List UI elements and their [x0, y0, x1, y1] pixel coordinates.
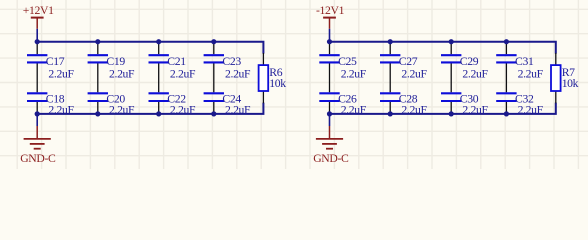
svg-text:10k: 10k — [562, 77, 579, 90]
svg-text:2.2uF: 2.2uF — [225, 67, 251, 80]
pin R7 top lead — [555, 53, 557, 65]
ground stem — [36, 126, 38, 139]
ground bar 3 — [34, 148, 41, 150]
C30 plate 1 — [441, 92, 461, 94]
junction on bottom bus col 2 — [95, 111, 100, 116]
svg-text:2.2uF: 2.2uF — [401, 103, 427, 116]
junction on bottom bus col 1 — [327, 111, 332, 116]
wire/pin C28 bottom lead — [389, 102, 391, 114]
junction on bottom bus col 4 — [211, 111, 216, 116]
junction on bottom bus col 4 — [504, 111, 509, 116]
C31 plate 2 — [496, 61, 516, 63]
capacitor C22 — [149, 92, 196, 116]
capacitor C31 — [496, 55, 543, 80]
C18 plate 1 — [27, 92, 47, 94]
C26 plate 1 — [319, 92, 339, 94]
wire/pin C18 bottom lead — [36, 102, 38, 114]
R6 body — [259, 65, 269, 91]
C18 plate 2 — [27, 100, 47, 102]
power port +12V1 — [23, 4, 54, 29]
-12V1 bar symbol — [323, 17, 336, 19]
C22 plate 1 — [149, 92, 169, 94]
svg-text:C29: C29 — [460, 55, 479, 68]
wire/pin C30 bottom lead — [450, 102, 452, 114]
capacitor C25 — [319, 55, 366, 80]
junction on top bus col 3 — [156, 39, 161, 44]
svg-text:2.2uF: 2.2uF — [462, 103, 488, 116]
capacitor C21 — [149, 55, 196, 80]
C19 plate 1 — [88, 54, 108, 56]
-12V1 stem — [329, 18, 331, 29]
svg-text:2.2uF: 2.2uF — [48, 67, 74, 80]
ground bar 1 — [316, 138, 343, 140]
capacitor C30 — [441, 92, 488, 116]
pin R6 bottom lead — [262, 91, 264, 103]
junction on bottom bus col 3 — [156, 111, 161, 116]
ground bar 3 — [326, 148, 333, 150]
wire/pin C29 top lead — [450, 42, 452, 55]
C21 plate 2 — [149, 61, 169, 63]
svg-text:2.2uF: 2.2uF — [518, 67, 544, 80]
wire/pin C21 top lead — [158, 42, 160, 55]
pin R6 top lead — [262, 53, 264, 65]
wire -12V1 top bus — [330, 42, 556, 54]
svg-text:2.2uF: 2.2uF — [170, 67, 196, 80]
svg-text:C31: C31 — [515, 55, 534, 68]
wire/pin C27 top lead — [389, 42, 391, 55]
junction on bottom bus col 2 — [388, 111, 393, 116]
wire/pin C26 bottom lead — [329, 102, 331, 114]
C22 plate 2 — [149, 100, 169, 102]
pin lead between C23 and C24 — [213, 63, 215, 92]
svg-text:C19: C19 — [106, 55, 125, 68]
capacitor C27 — [380, 55, 427, 80]
svg-text:2.2uF: 2.2uF — [341, 67, 367, 80]
ground GND-C symbol — [313, 126, 349, 165]
C21 plate 1 — [149, 54, 169, 56]
capacitor C17 — [27, 55, 74, 80]
capacitor C32 — [496, 92, 543, 116]
svg-text:2.2uF: 2.2uF — [341, 103, 367, 116]
C29 plate 1 — [441, 54, 461, 56]
+12V1 stem — [36, 18, 38, 29]
pin lead between C27 and C28 — [389, 63, 391, 92]
svg-text:GND-C: GND-C — [313, 152, 349, 165]
svg-text:C21: C21 — [167, 55, 186, 68]
C32 plate 2 — [496, 100, 516, 102]
ground bar 2 — [30, 143, 45, 145]
svg-text:2.2uF: 2.2uF — [225, 103, 251, 116]
svg-text:+12V1: +12V1 — [23, 4, 54, 17]
svg-text:-12V1: -12V1 — [316, 4, 345, 17]
wire/pin C25 top lead — [329, 42, 331, 55]
C20 plate 2 — [88, 100, 108, 102]
wire/pin C24 bottom lead — [213, 102, 215, 114]
C28 plate 1 — [380, 92, 400, 94]
junction on top bus col 2 — [388, 39, 393, 44]
C17 plate 2 — [27, 61, 47, 63]
junction on bottom bus col 3 — [449, 111, 454, 116]
wire bus to ground symbol — [36, 114, 38, 126]
wire +12V1 stem to bus — [36, 29, 38, 42]
ground stem — [329, 126, 331, 139]
C23 plate 1 — [204, 54, 224, 56]
capacitor C18 — [27, 92, 74, 116]
svg-text:2.2uF: 2.2uF — [109, 103, 135, 116]
C24 plate 2 — [204, 100, 224, 102]
svg-text:2.2uF: 2.2uF — [401, 67, 427, 80]
R7 body — [551, 65, 561, 91]
pin lead between C31 and C32 — [505, 63, 507, 92]
C24 plate 1 — [204, 92, 224, 94]
pin lead between C25 and C26 — [329, 63, 331, 92]
C27 plate 2 — [380, 61, 400, 63]
C19 plate 2 — [88, 61, 108, 63]
junction on top bus col 4 — [211, 39, 216, 44]
wire/pin C20 bottom lead — [97, 102, 99, 114]
wire -12V1 stem to bus — [329, 29, 331, 42]
junction on top bus col 1 — [35, 39, 40, 44]
capacitor C26 — [319, 92, 366, 116]
C23 plate 2 — [204, 61, 224, 63]
resistor R7 — [551, 65, 579, 91]
wire ground bottom bus — [330, 103, 556, 114]
capacitor C19 — [88, 55, 135, 80]
pin lead between C17 and C18 — [36, 63, 38, 92]
C27 plate 1 — [380, 54, 400, 56]
svg-text:GND-C: GND-C — [20, 152, 56, 165]
junction on top bus col 3 — [449, 39, 454, 44]
pin lead between C19 and C20 — [97, 63, 99, 92]
ground bar 2 — [322, 143, 337, 145]
+12V1 bar symbol — [31, 17, 44, 19]
C31 plate 1 — [496, 54, 516, 56]
C25 plate 1 — [319, 54, 339, 56]
C20 plate 1 — [88, 92, 108, 94]
C29 plate 2 — [441, 61, 461, 63]
svg-text:2.2uF: 2.2uF — [170, 103, 196, 116]
svg-text:10k: 10k — [269, 77, 286, 90]
ground GND-C symbol — [20, 126, 56, 165]
pin R7 bottom lead — [555, 91, 557, 103]
junction on top bus col 2 — [95, 39, 100, 44]
wire/pin C19 top lead — [97, 42, 99, 55]
resistor R6 — [259, 65, 287, 91]
wire +12V1 top bus — [37, 42, 263, 54]
capacitor C24 — [204, 92, 251, 116]
wire/pin C22 bottom lead — [158, 102, 160, 114]
svg-text:2.2uF: 2.2uF — [518, 103, 544, 116]
svg-text:2.2uF: 2.2uF — [462, 67, 488, 80]
pin lead between C21 and C22 — [158, 63, 160, 92]
wire/pin C32 bottom lead — [505, 102, 507, 114]
junction on top bus col 4 — [504, 39, 509, 44]
svg-text:C17: C17 — [46, 55, 65, 68]
capacitor C28 — [380, 92, 427, 116]
C30 plate 2 — [441, 100, 461, 102]
wire bus to ground symbol — [329, 114, 331, 126]
pin lead between C29 and C30 — [450, 63, 452, 92]
C17 plate 1 — [27, 54, 47, 56]
C28 plate 2 — [380, 100, 400, 102]
junction on bottom bus col 1 — [35, 111, 40, 116]
svg-text:2.2uF: 2.2uF — [109, 67, 135, 80]
svg-text:C23: C23 — [222, 55, 241, 68]
capacitor C23 — [204, 55, 251, 80]
ground bar 1 — [24, 138, 51, 140]
power port -12V1 — [316, 4, 345, 29]
svg-text:2.2uF: 2.2uF — [48, 103, 74, 116]
C32 plate 1 — [496, 92, 516, 94]
svg-text:C25: C25 — [338, 55, 357, 68]
C26 plate 2 — [319, 100, 339, 102]
wire/pin C17 top lead — [36, 42, 38, 55]
wire/pin C23 top lead — [213, 42, 215, 55]
capacitor C29 — [441, 55, 488, 80]
wire/pin C31 top lead — [505, 42, 507, 55]
wire ground bottom bus — [37, 103, 263, 114]
capacitor C20 — [88, 92, 135, 116]
C25 plate 2 — [319, 61, 339, 63]
svg-text:C27: C27 — [399, 55, 418, 68]
junction on top bus col 1 — [327, 39, 332, 44]
